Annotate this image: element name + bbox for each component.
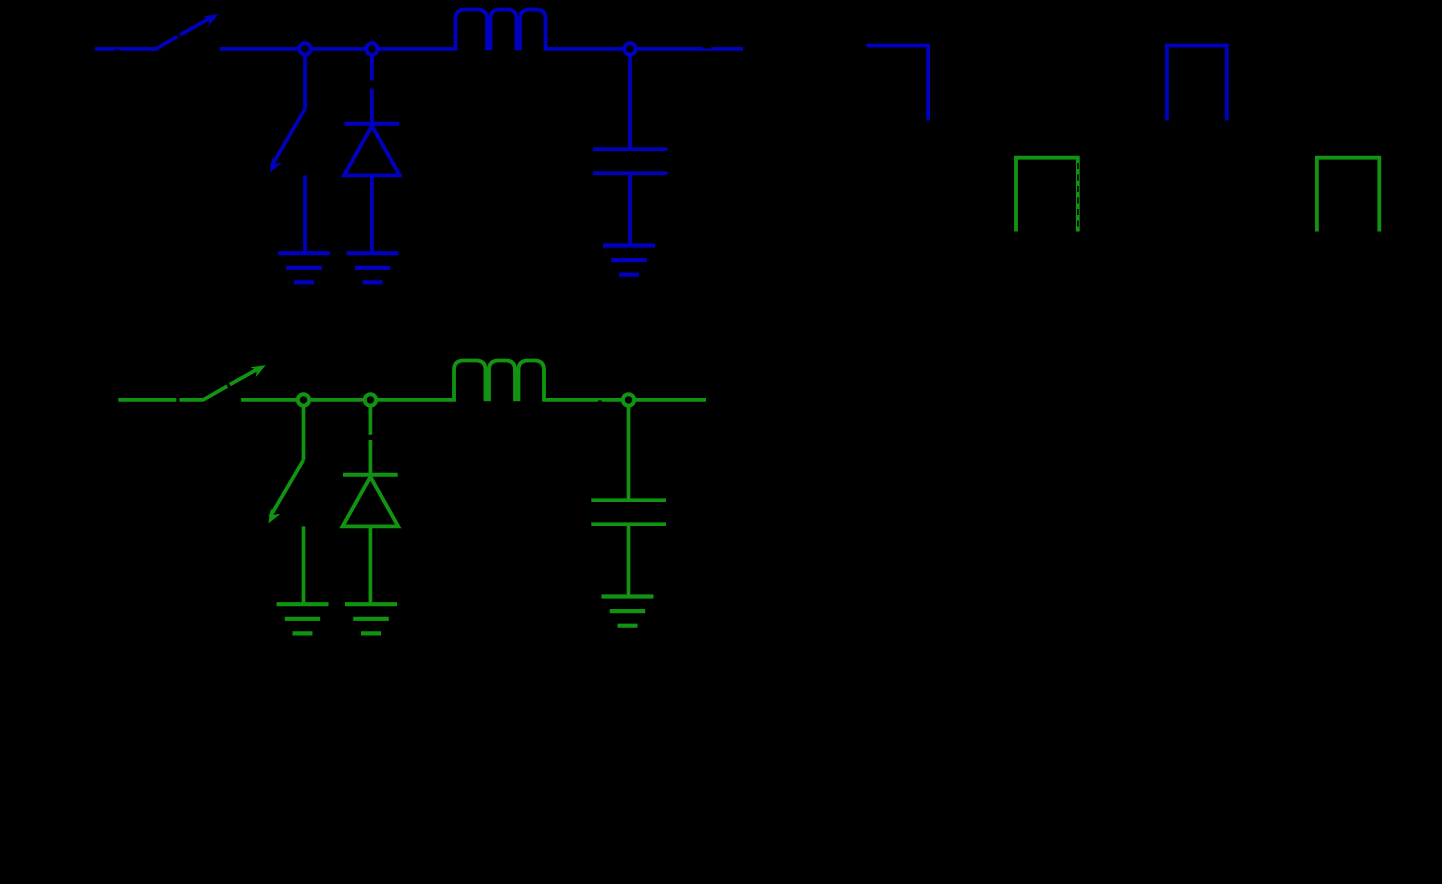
switch S1 control lever (open, arrow)	[155, 37, 177, 50]
ground (capacitor)	[602, 594, 654, 598]
ground (diode)	[347, 251, 399, 255]
waveform: green PWM pulse 1	[1016, 158, 1078, 232]
switch S2 control lever (open, arrow)	[203, 386, 228, 400]
wire: switch ground contact	[303, 175, 307, 253]
diode D1 freewheeling	[370, 55, 374, 81]
switch S2 lower throw to ground (arrow)	[302, 406, 306, 460]
ground (switch)	[278, 251, 330, 255]
ground (capacitor)	[603, 243, 655, 247]
switch S1 lower throw to ground (arrow)	[303, 55, 307, 109]
inductor L2	[454, 361, 544, 402]
black dash nick over blue input wire	[115, 50, 120, 52]
node: switch output junction	[298, 394, 309, 405]
capacitor C2 output filter	[627, 406, 631, 499]
wire: switch to inductor node run	[241, 398, 456, 402]
node: output junction	[624, 43, 635, 54]
capacitor C1 output filter	[628, 55, 632, 148]
wire: phase 1 input from Vin	[95, 47, 158, 51]
dashed sync line over green pulse edge	[1077, 163, 1079, 231]
inductor L1	[456, 10, 546, 51]
ground (diode)	[345, 602, 397, 606]
wire: inductor to output	[544, 47, 743, 51]
diode D2 freewheeling	[369, 406, 373, 435]
waveform: blue PWM pulse (partial, left)	[866, 46, 928, 121]
wire: switch to inductor node run	[220, 47, 458, 51]
ground (switch)	[277, 602, 329, 606]
node: output junction	[623, 394, 634, 405]
node: switch output junction	[299, 43, 310, 54]
wire: inductor to output	[542, 398, 706, 402]
node: diode junction	[365, 394, 376, 405]
node: diode junction	[366, 43, 377, 54]
waveform: blue PWM pulse (full)	[1167, 46, 1227, 121]
wire: phase 2 input from Vin	[118, 398, 176, 402]
black dash nick over blue output wire	[703, 46, 711, 49]
black dash nick over green wire before output node	[598, 400, 602, 402]
wire: switch ground contact	[302, 526, 306, 604]
waveform: green PWM pulse 2	[1317, 158, 1379, 232]
